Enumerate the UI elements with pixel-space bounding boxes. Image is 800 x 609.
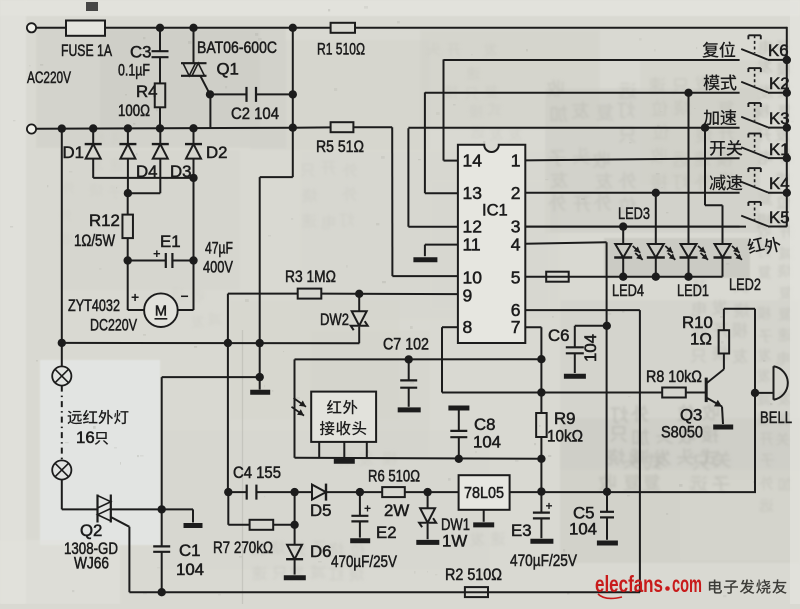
node DW2 top <box>355 290 363 298</box>
wire y343 link <box>62 342 360 344</box>
svg-text:D2: D2 <box>206 143 227 162</box>
wire E1 left <box>128 260 166 262</box>
wire A y359 <box>295 358 542 360</box>
wire C1 gnd L <box>162 508 193 510</box>
svg-text:C1: C1 <box>179 541 200 560</box>
diode D6 <box>294 525 296 545</box>
svg-text:1Ω: 1Ω <box>690 330 712 349</box>
label 减速 <box>710 175 743 191</box>
diode D4 <box>119 143 136 145</box>
wire LED cathode bus2 <box>525 276 722 278</box>
switch K4 <box>741 182 768 193</box>
wire K6 row <box>444 59 740 61</box>
wire top rail R1 to right bus corner <box>355 27 787 29</box>
wire top to Q1 <box>193 28 195 63</box>
switch K3 <box>741 117 768 128</box>
bell BELL <box>774 366 788 399</box>
wire gate to C2 <box>210 93 247 95</box>
svg-text:R12: R12 <box>89 211 120 230</box>
ground near C1 <box>184 523 203 528</box>
node D5 left <box>290 488 298 496</box>
svg-text:D5: D5 <box>310 501 331 520</box>
zener DW1 <box>427 492 429 508</box>
receiver legs <box>318 442 320 458</box>
wire Q2 gate <box>111 517 130 527</box>
ground E3 <box>530 539 553 544</box>
wire x607 vertical <box>606 242 608 492</box>
wire C1 node down <box>161 509 163 545</box>
svg-text:104: 104 <box>176 560 204 579</box>
svg-text:14: 14 <box>463 150 483 170</box>
diode D5 <box>312 485 326 500</box>
svg-text:−: − <box>181 288 189 304</box>
wire C6 link <box>575 325 607 327</box>
ground C6 <box>564 374 586 379</box>
svg-text:C3: C3 <box>130 43 151 62</box>
capacitor C7 102 <box>408 359 410 379</box>
svg-text:Q2: Q2 <box>80 521 102 540</box>
svg-text:+: + <box>131 289 139 305</box>
svg-text:D6: D6 <box>310 542 331 561</box>
label hongwai in box <box>327 400 358 414</box>
resistor R4 <box>155 83 166 107</box>
node K3 col4 feed <box>701 124 709 132</box>
wire pin6 row <box>525 309 640 311</box>
wire dashed lamp string <box>61 386 63 461</box>
svg-text:LED1: LED1 <box>677 281 709 300</box>
capacitor E2 <box>359 492 361 515</box>
svg-text:R3 1MΩ: R3 1MΩ <box>285 267 336 286</box>
node D4 link R12 <box>124 189 132 197</box>
ground-bar C8 top <box>448 406 469 411</box>
svg-text:100Ω: 100Ω <box>118 101 150 120</box>
resistor R7 <box>250 520 274 530</box>
svg-text:E3: E3 <box>511 521 532 540</box>
wire pin11 to ground <box>425 244 458 246</box>
wire K4 row <box>525 192 739 194</box>
resistor R6 <box>382 487 405 497</box>
svg-text:R4: R4 <box>136 82 157 101</box>
node E1 right <box>189 256 197 264</box>
wire rail492 c4 <box>228 491 246 493</box>
diode D1 <box>85 143 102 145</box>
wire top to C3 <box>159 28 161 51</box>
wire K5 row <box>525 226 739 228</box>
triac Q1 <box>181 62 207 64</box>
node Q1 gate / C2 left <box>206 90 214 98</box>
capacitor C3 <box>152 50 169 52</box>
node K2 col3 feed <box>684 89 692 97</box>
ground at x260 <box>250 390 270 395</box>
svg-text:com: com <box>672 571 702 597</box>
wire D5 to R6 <box>326 491 382 493</box>
node rail492 x607 <box>603 488 611 496</box>
svg-text:R8 10kΩ: R8 10kΩ <box>646 367 702 386</box>
svg-text:Q1: Q1 <box>217 60 239 79</box>
svg-text:+: + <box>364 502 371 516</box>
label 复位 <box>702 41 735 57</box>
node rail D1 <box>89 124 97 132</box>
capacitor E1 47uF 400V <box>165 253 167 268</box>
transistor Q3 S8050 <box>705 378 708 403</box>
ground C7 <box>398 407 421 412</box>
wire E1 left node to motor <box>127 261 129 311</box>
node C1 top <box>158 505 166 513</box>
svg-text:K2: K2 <box>769 74 790 93</box>
wire R5 right <box>353 126 392 128</box>
IC1 body DIP <box>458 145 525 343</box>
svg-text:D1: D1 <box>63 143 84 162</box>
wire Q1 gate <box>200 76 210 95</box>
wire bell vertical <box>754 309 756 492</box>
svg-text:FUSE 1A: FUSE 1A <box>61 41 113 60</box>
node rail B x541 <box>537 455 545 463</box>
wire right key bus <box>786 27 788 227</box>
ground 78L05 <box>473 522 494 527</box>
svg-text:S8050: S8050 <box>661 423 703 442</box>
svg-text:10kΩ: 10kΩ <box>547 427 583 446</box>
svg-text:5: 5 <box>511 268 521 288</box>
wire pin8 to x541 <box>442 392 541 394</box>
wire R3 to IC pin9 <box>321 293 458 296</box>
wire rail to D4 <box>127 128 129 144</box>
ground Q3 emitter <box>713 425 733 430</box>
node DW1 top <box>423 488 431 496</box>
wire rail B <box>295 458 542 459</box>
wire E1 right <box>172 260 193 262</box>
ground DW1 <box>416 540 439 545</box>
wire pin7 stub <box>525 326 541 328</box>
ground C5 <box>597 541 618 546</box>
resistor R10 <box>719 330 730 353</box>
wire top rail fuse to R1 <box>105 27 331 29</box>
resistor on pin5 row <box>546 272 569 282</box>
terminal T2 (AC neutral) <box>27 124 36 133</box>
diode D3 <box>152 143 169 145</box>
node C4 left <box>224 488 232 496</box>
svg-text:104: 104 <box>569 520 597 539</box>
wire 78L05 out <box>510 491 756 493</box>
ground E2 <box>350 538 370 543</box>
capacitor C8 column <box>458 438 460 459</box>
wire lamp2 to Q2 <box>62 508 98 510</box>
fuse FUSE 1A <box>66 21 105 36</box>
wire lower AC rail <box>36 128 293 129</box>
LED (col2) diode <box>648 244 664 258</box>
resistor R12 <box>122 215 133 239</box>
wire R4 to lower rail <box>159 107 161 128</box>
wire K2 row <box>425 92 740 94</box>
svg-text:DC220V: DC220V <box>90 316 138 335</box>
wire to bell <box>755 392 774 394</box>
svg-text:47µF: 47µF <box>205 239 233 258</box>
lamp 2 (far-infrared) <box>52 460 71 479</box>
wire Q2 to C1 node <box>111 508 162 510</box>
svg-text:+: + <box>546 499 553 513</box>
LED1 diode <box>681 244 697 258</box>
resistor R1 <box>331 23 355 33</box>
svg-text:13: 13 <box>463 183 482 203</box>
resistor R2 <box>465 587 488 597</box>
svg-text:IC1: IC1 <box>482 202 508 220</box>
svg-text:R1 510Ω: R1 510Ω <box>317 40 365 59</box>
svg-text:AC220V: AC220V <box>27 68 72 87</box>
wire D3 anode down <box>159 159 161 194</box>
wire x228 vertical <box>227 294 229 493</box>
wire pin7 down <box>540 327 542 413</box>
ground pin11 <box>413 257 437 262</box>
IR receiver box <box>311 392 376 442</box>
wire Q3 emitter down <box>722 407 723 424</box>
svg-text:C6: C6 <box>548 326 569 345</box>
svg-text:elecfans: elecfans <box>595 571 663 597</box>
capacitor C1 104 <box>153 545 170 547</box>
svg-text:BAT06-600C: BAT06-600C <box>197 38 277 57</box>
label yuan-hong-wai-deng <box>68 410 129 424</box>
capacitor C2 <box>245 87 247 102</box>
wire D1-D2 link <box>93 177 193 179</box>
wire 78L05 gnd <box>483 510 485 522</box>
svg-text:LED4: LED4 <box>612 281 644 300</box>
node bus1 LED col1 <box>619 222 627 230</box>
wire K6 feeder corner <box>443 59 445 160</box>
node rail D2 <box>189 124 197 132</box>
wire R8 to base <box>686 392 706 394</box>
wire D1 anode down <box>92 159 94 178</box>
wire col2 from K4 <box>655 193 657 244</box>
wire R5 corner down <box>391 127 393 276</box>
capacitor E3 <box>540 492 542 512</box>
wire gate node down to lower rail <box>209 94 211 127</box>
node top rail x160 <box>156 24 164 32</box>
capacitor C4 155 <box>246 485 248 500</box>
wire R10 top <box>723 309 725 330</box>
node bus K3 <box>783 124 791 132</box>
svg-text:C8: C8 <box>474 415 495 434</box>
svg-text:104: 104 <box>473 433 501 452</box>
svg-text:K6: K6 <box>768 41 789 60</box>
wire C3 to R4 <box>159 58 161 84</box>
wire C2 to right node <box>256 93 293 95</box>
svg-text:470µF/25V: 470µF/25V <box>510 551 578 570</box>
svg-text:R6 510Ω: R6 510Ω <box>368 467 420 486</box>
wire rail to D2 <box>193 128 195 144</box>
lamp 1 (far-infrared) <box>52 366 71 385</box>
wire R7 row L <box>228 524 249 526</box>
wire rail to D1 <box>92 128 94 144</box>
svg-text:WJ66: WJ66 <box>74 554 109 573</box>
wire D4-D3 link <box>128 192 160 194</box>
svg-text:K3: K3 <box>769 109 790 128</box>
wire K1 row <box>525 158 739 160</box>
node x228 y343 <box>224 339 232 347</box>
label jieshoutou in box <box>320 421 366 435</box>
svg-text:R7 270kΩ: R7 270kΩ <box>213 538 273 557</box>
node y377 x260 <box>256 373 264 381</box>
svg-text:1: 1 <box>511 150 521 170</box>
svg-text:8: 8 <box>463 317 473 337</box>
svg-text:2: 2 <box>511 183 521 203</box>
wire motor right up to E1 <box>193 261 195 311</box>
node x260 y343 <box>256 339 264 347</box>
wire C1 to bottom rail <box>161 552 163 592</box>
wire lamp2 down <box>61 480 63 510</box>
svg-text:9: 9 <box>463 286 473 306</box>
svg-text:1Ω/5W: 1Ω/5W <box>74 231 115 250</box>
diode D2 <box>185 143 202 145</box>
ground receiver <box>334 459 355 464</box>
wire D4 node to R12 <box>127 193 129 214</box>
switch K2 <box>741 82 768 93</box>
wire rail to D3 <box>159 128 161 144</box>
IR arrows into receiver <box>294 398 307 407</box>
svg-text:0.1µF: 0.1µF <box>118 61 150 80</box>
wire to pin10 <box>392 275 458 277</box>
svg-text:104: 104 <box>581 334 600 362</box>
label 加速 <box>703 109 736 125</box>
switch K1 <box>741 147 768 158</box>
label 开关 <box>710 140 743 156</box>
svg-text:K5: K5 <box>769 208 790 227</box>
svg-text:400V: 400V <box>203 258 234 277</box>
resistor R5 <box>331 122 354 132</box>
wire col4 jog from K3 <box>704 128 706 206</box>
node lower rail x293 <box>289 124 297 132</box>
svg-text:C4 155: C4 155 <box>233 463 281 482</box>
node rail D3/R4 <box>156 124 164 132</box>
svg-text:C7 102: C7 102 <box>383 335 429 354</box>
svg-text:16: 16 <box>76 428 95 447</box>
wire C4 to D5 node <box>256 491 312 493</box>
motor M ZYT4032 <box>144 293 178 327</box>
label 模式 <box>703 74 736 90</box>
node D6 top <box>290 521 298 529</box>
node x541 y392 <box>537 388 545 396</box>
wire C2-right vertical <box>292 28 294 177</box>
capacitor C5 <box>606 492 608 511</box>
node rail x62 <box>58 124 66 132</box>
wire R6 to 78L05 <box>405 491 459 493</box>
wire pin4 row <box>525 242 606 244</box>
svg-text:R2 510Ω: R2 510Ω <box>445 565 502 584</box>
wire K2 feeder corner <box>424 92 426 193</box>
wire R7 right rise <box>294 492 296 525</box>
ground D6 <box>284 575 306 580</box>
wire col3 from K2 <box>688 93 690 244</box>
terminal T1 (AC live) <box>27 23 36 32</box>
LED2 diode <box>715 244 731 258</box>
svg-text:E2: E2 <box>376 523 397 542</box>
node x607 C6 <box>603 322 611 330</box>
node C2 right <box>289 90 297 98</box>
node E2 top <box>356 488 364 496</box>
wire R7 left drop <box>227 492 229 525</box>
wire T1 to fuse <box>36 27 66 29</box>
wire R5 left <box>293 126 331 128</box>
node x541 y359 <box>537 355 545 363</box>
node bus K2 <box>783 89 791 97</box>
wire pin8 down <box>441 327 443 392</box>
wire motor left <box>128 309 145 311</box>
svg-text:K1: K1 <box>769 140 790 159</box>
svg-text:2W: 2W <box>384 501 409 520</box>
wire K3 row <box>408 127 739 129</box>
resistor R9 <box>536 413 547 437</box>
wire D2 anode down to E1 <box>193 159 195 261</box>
node bus K4 <box>783 189 791 197</box>
svg-text:K4: K4 <box>769 174 790 193</box>
regulator 78L05 box <box>459 475 510 510</box>
wire R3 row <box>228 293 298 295</box>
svg-text:4: 4 <box>511 234 521 254</box>
node K4 col2 feed <box>652 189 660 197</box>
wire D4 anode down <box>127 159 129 194</box>
wire motor right <box>178 309 194 311</box>
node rail B C8 <box>455 455 463 463</box>
svg-text:DW2: DW2 <box>320 310 349 329</box>
wire R9 to rails <box>540 437 542 492</box>
triac Q2 <box>96 495 98 523</box>
wire C1 node up <box>161 377 163 509</box>
wire x293 to x260 jog <box>260 176 293 178</box>
wire Q2 gate down <box>128 527 130 592</box>
svg-text:R5 51Ω: R5 51Ω <box>316 137 364 156</box>
wire bottom rail <box>129 591 640 593</box>
switch K5 <box>741 216 768 227</box>
wire x62 to lamp1 <box>61 343 63 367</box>
node bell tap <box>751 389 759 397</box>
zener DW2 <box>358 294 360 311</box>
wire y377 link <box>162 376 260 378</box>
svg-text:470µF/25V: 470µF/25V <box>331 552 398 571</box>
LED4 diode <box>615 244 631 258</box>
wire R7 row R <box>273 524 294 526</box>
svg-text:LED2: LED2 <box>729 275 761 294</box>
svg-text:11: 11 <box>463 234 481 254</box>
svg-text:LED3: LED3 <box>618 204 650 223</box>
node bus2 col1 <box>619 273 627 281</box>
svg-text:78L05: 78L05 <box>464 485 504 502</box>
node C7 top <box>405 355 413 363</box>
wire Q3 collector up <box>723 354 725 370</box>
svg-text:7: 7 <box>511 317 521 337</box>
svg-text:E1: E1 <box>160 232 181 251</box>
wire pin8 stub <box>442 326 458 328</box>
svg-text:1W: 1W <box>442 532 467 551</box>
wire x260 gnd stub <box>259 377 261 389</box>
node E1 left <box>124 256 132 264</box>
wire col1 from bus1 <box>622 227 624 244</box>
watermark dianzifashaoyou <box>709 579 787 593</box>
svg-text:R9: R9 <box>554 409 575 428</box>
node top rail x293 <box>289 24 297 32</box>
node bus2 col2 <box>652 273 660 281</box>
node bus K6 <box>783 56 791 64</box>
node rail D4 <box>124 124 132 132</box>
resistor R3 <box>298 289 322 299</box>
wire A corner down <box>294 359 296 457</box>
node bottom rail C1 <box>158 588 166 596</box>
node x62 y343 <box>58 339 66 347</box>
capacitor C6 <box>574 326 576 347</box>
svg-text:C2 104: C2 104 <box>231 104 279 123</box>
wire R12 to E1 node <box>127 238 129 260</box>
node top rail x193 <box>189 24 197 32</box>
node x541 rail492 <box>537 487 545 495</box>
wire K3 feeder corner <box>407 128 409 226</box>
wire pin6 vertical <box>639 310 641 592</box>
wire left rail down <box>61 129 63 343</box>
